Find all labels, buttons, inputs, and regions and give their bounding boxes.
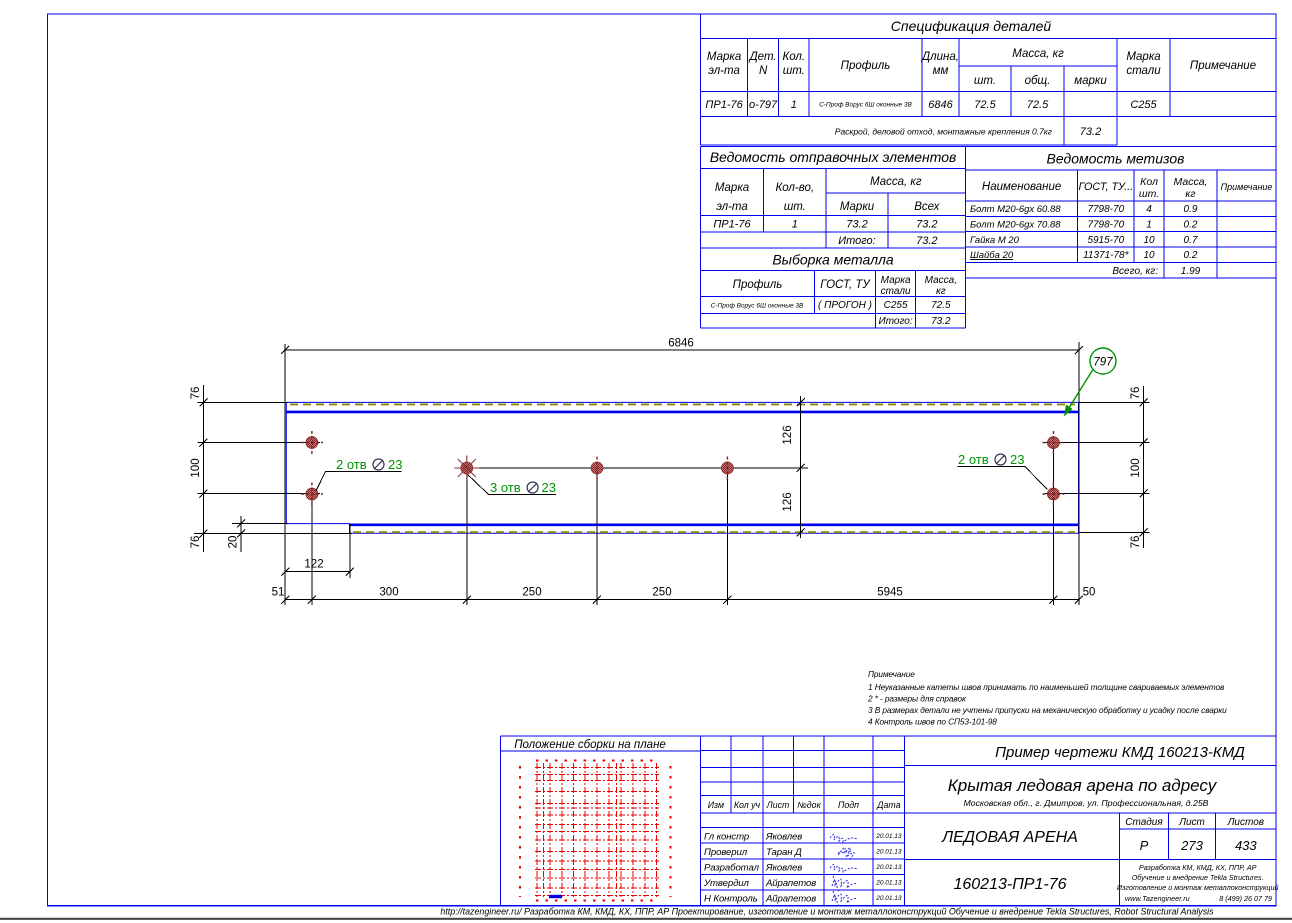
svg-text:8 (499) 26 07 79: 8 (499) 26 07 79	[1219, 894, 1272, 903]
svg-text:Таран Д: Таран Д	[766, 847, 802, 858]
svg-text:73.2: 73.2	[1080, 126, 1101, 138]
svg-text:73.2: 73.2	[916, 235, 937, 247]
svg-text:73.2: 73.2	[846, 219, 867, 231]
leader label left 2 отв	[316, 457, 403, 491]
dim text 76 right bottom	[1130, 536, 1142, 549]
title block texts	[514, 739, 1278, 905]
svg-text:Разработка КМ, КМД, КХ, ППР, А: Разработка КМ, КМД, КХ, ППР, АР	[1139, 863, 1257, 872]
svg-text:Марка: Марка	[715, 182, 749, 194]
svg-text:С-Проф Ворус 6Ш оконные 3В: С-Проф Ворус 6Ш оконные 3В	[819, 102, 912, 109]
svg-text:7798-70: 7798-70	[1087, 204, 1124, 215]
svg-text:ГОСТ, ТУ...: ГОСТ, ТУ...	[1078, 181, 1133, 193]
svg-text:2 * - размеры для справок: 2 * - размеры для справок	[867, 694, 967, 704]
svg-text:Раскрой, деловой отход, монтаж: Раскрой, деловой отход, монтажные крепле…	[835, 127, 1052, 137]
svg-text:Н Контроль: Н Контроль	[704, 894, 758, 905]
balloon 797	[1064, 348, 1116, 417]
svg-text:20.01.13: 20.01.13	[875, 895, 902, 902]
svg-text:Итого:: Итого:	[838, 235, 876, 247]
svg-text:Всех: Всех	[914, 201, 940, 213]
svg-text:Масса,: Масса,	[1174, 176, 1208, 188]
svg-text:Профиль: Профиль	[733, 279, 783, 291]
svg-text:Изготовление и монтаж металлок: Изготовление и монтаж металлоконструкций	[1117, 883, 1279, 892]
svg-text:76: 76	[190, 536, 202, 549]
svg-text:Положение сборки на плане: Положение сборки на плане	[514, 739, 666, 751]
svg-text:Подп: Подп	[838, 800, 859, 810]
extension line hole column 51	[311, 497, 313, 605]
svg-text:Наименование: Наименование	[982, 181, 1061, 193]
svg-text:стали: стали	[1126, 65, 1161, 77]
leader label 3 отв	[468, 475, 556, 496]
svg-text:Ведомость отправочных элементо: Ведомость отправочных элементов	[710, 149, 957, 165]
svg-text:кг: кг	[936, 286, 946, 297]
svg-text:N: N	[759, 65, 768, 77]
svg-text:4 Контроль швов по СП53-101-9: 4 Контроль швов по СП53-101-98	[868, 717, 997, 727]
svg-text:0.7: 0.7	[1184, 235, 1198, 246]
bend line top (dashed)	[290, 403, 1075, 405]
svg-text:76: 76	[1130, 387, 1142, 400]
svg-text:http://tazengineer.ru/ Разраб: http://tazengineer.ru/ Разработка КМ, КМ…	[440, 907, 1214, 917]
right vertical dimension line 76/100/76	[1045, 386, 1150, 548]
svg-text:Выборка металла: Выборка металла	[772, 252, 894, 268]
svg-text:Дет.: Дет.	[748, 51, 777, 63]
hole H2 lower-left	[301, 483, 323, 506]
svg-text:76: 76	[190, 387, 202, 400]
extension line hole column 601	[596, 468, 598, 605]
svg-text:С255: С255	[1130, 99, 1157, 111]
svg-text:Кол-во,: Кол-во,	[776, 182, 815, 194]
svg-text:100: 100	[1130, 458, 1142, 477]
svg-text:шт.: шт.	[1139, 188, 1159, 200]
svg-text:шт.: шт.	[974, 75, 996, 87]
purlin web bottom thin edge	[350, 532, 1079, 534]
svg-text:Кол.: Кол.	[782, 51, 805, 63]
table Спецификация деталей grid	[701, 14, 1277, 145]
bottom url line	[440, 907, 1214, 917]
svg-text:Обучение и внедрение Tekla St: Обучение и внедрение Tekla Structures.	[1132, 873, 1264, 882]
svg-text:Кол: Кол	[1140, 176, 1158, 188]
svg-text:Марки: Марки	[840, 201, 875, 213]
dim text 100 right	[1130, 458, 1142, 477]
svg-text:0.2: 0.2	[1184, 220, 1198, 231]
dimension 20	[232, 516, 288, 552]
svg-text:Яковлев: Яковлев	[765, 832, 802, 843]
dim text 76 left bottom	[190, 536, 202, 549]
svg-text:23: 23	[542, 480, 556, 495]
dim text 250 a	[522, 587, 541, 599]
svg-text:мм: мм	[933, 65, 949, 77]
svg-text:1 Неуказанные катеты швов при: 1 Неуказанные катеты швов принимать по н…	[868, 682, 1225, 692]
dim text 76 left top	[190, 387, 202, 400]
svg-text:Примечание: Примечание	[868, 669, 915, 679]
svg-text:250: 250	[652, 587, 671, 599]
extension line hole column 351	[466, 468, 468, 605]
svg-text:шт.: шт.	[783, 65, 805, 77]
svg-text:Пример чертежи КМД 160213-КМ: Пример чертежи КМД 160213-КМД	[995, 744, 1245, 761]
dim text 20	[228, 536, 240, 549]
svg-text:Гл констр: Гл констр	[704, 832, 750, 843]
purlin left end edge	[285, 402, 287, 523]
svg-text:Примечание: Примечание	[1221, 182, 1273, 192]
svg-text:5915-70: 5915-70	[1087, 235, 1124, 246]
svg-text:1: 1	[1146, 220, 1152, 231]
svg-text:Крытая ледовая арена по адресу: Крытая ледовая арена по адресу	[948, 776, 1218, 795]
middle dimension line 126/126	[467, 396, 808, 538]
signature scribbles	[830, 834, 857, 907]
dim text 250 b	[652, 587, 671, 599]
extension line right end	[1078, 342, 1080, 605]
svg-text:ГОСТ, ТУ: ГОСТ, ТУ	[820, 279, 871, 291]
svg-text:2 отв: 2 отв	[336, 457, 367, 472]
svg-text:126: 126	[782, 492, 794, 511]
svg-text:Марка: Марка	[1126, 51, 1160, 63]
svg-text:Итого:: Итого:	[879, 316, 913, 327]
dimension 6846	[281, 346, 1083, 354]
svg-text:Масса,: Масса,	[925, 275, 957, 286]
dim text 126 bottom	[782, 492, 794, 511]
svg-text:122: 122	[304, 559, 323, 571]
svg-text:Болт М20-6gх 60.88: Болт М20-6gх 60.88	[970, 204, 1061, 215]
svg-text:Яковлев: Яковлев	[765, 863, 802, 874]
svg-text:433: 433	[1235, 838, 1257, 853]
hole H6 upper-right	[1042, 431, 1064, 454]
svg-text:кг: кг	[1185, 188, 1195, 200]
svg-text:10: 10	[1143, 235, 1155, 246]
bend line bottom (dashed)	[353, 531, 1075, 533]
svg-text:С-Проф Ворус 6Ш оконные 3В: С-Проф Ворус 6Ш оконные 3В	[711, 303, 804, 310]
svg-text:0.9: 0.9	[1184, 204, 1198, 215]
svg-text:0.2: 0.2	[1184, 250, 1198, 261]
svg-text:7798-70: 7798-70	[1087, 220, 1124, 231]
bottom separator line	[0, 918, 1292, 920]
svg-text:Айрапетов: Айрапетов	[765, 894, 816, 905]
svg-text:273: 273	[1180, 838, 1203, 853]
svg-text:10: 10	[1143, 250, 1155, 261]
table Выборка металла grid	[701, 271, 966, 328]
bottom dimension chain line	[281, 596, 1083, 604]
svg-text:11371-78*: 11371-78*	[1083, 250, 1130, 261]
svg-text:Изм: Изм	[708, 800, 724, 810]
svg-text:72.5: 72.5	[974, 99, 996, 111]
svg-text:73.2: 73.2	[916, 219, 937, 231]
hole H3 middle star	[454, 456, 479, 481]
dim text 300	[379, 587, 398, 599]
dimension 122	[281, 524, 354, 578]
svg-text:73.2: 73.2	[931, 316, 951, 327]
purlin web top thin edge	[286, 401, 1078, 403]
TABLES-LINES	[501, 14, 1276, 906]
dim text 6846	[668, 338, 694, 350]
title block: signature table grid	[701, 736, 905, 905]
svg-text:Шайба 20: Шайба 20	[970, 250, 1014, 261]
svg-text:эл-та: эл-та	[708, 65, 740, 77]
svg-text:Длина,: Длина,	[920, 51, 959, 63]
svg-text:1.99: 1.99	[1181, 266, 1201, 277]
purlin bottom-left notch outline	[286, 524, 349, 534]
svg-text:300: 300	[379, 587, 398, 599]
svg-text:23: 23	[388, 457, 402, 472]
svg-text:№док: №док	[797, 800, 821, 810]
svg-text:Гайка М 20: Гайка М 20	[970, 235, 1020, 246]
svg-text:С255: С255	[884, 300, 908, 311]
hole H5 middle	[721, 457, 733, 480]
svg-text:о-797: о-797	[749, 99, 778, 111]
svg-text:Р: Р	[1140, 838, 1149, 853]
hole H1 upper-left	[301, 431, 323, 454]
svg-text:6846: 6846	[928, 99, 953, 111]
svg-text:Кол уч: Кол уч	[734, 800, 761, 810]
svg-text:( ПРОГОН ): ( ПРОГОН )	[818, 300, 872, 311]
svg-text:100: 100	[190, 458, 202, 477]
svg-text:3 отв: 3 отв	[490, 480, 521, 495]
svg-text:20.01.13: 20.01.13	[875, 833, 902, 840]
hole H7 lower-right	[1042, 483, 1064, 506]
extension line hole column 851	[726, 468, 728, 605]
dim text 100 left	[190, 458, 202, 477]
svg-text:2 отв: 2 отв	[958, 452, 989, 467]
svg-text:Утвердил: Утвердил	[703, 878, 750, 889]
title block: right stamp grid	[905, 765, 1276, 905]
svg-text:эл-та: эл-та	[716, 201, 748, 213]
dim text 122	[304, 559, 323, 571]
svg-text:Ведомость метизов: Ведомость метизов	[1047, 151, 1185, 167]
svg-text:1: 1	[791, 99, 797, 111]
extension line left end	[284, 344, 286, 605]
hole H4 middle	[591, 457, 603, 480]
dim text 126 top	[782, 425, 794, 444]
svg-text:Лист: Лист	[766, 800, 790, 810]
svg-text:шт.: шт.	[784, 201, 806, 213]
svg-text:Спецификация деталей: Спецификация деталей	[891, 18, 1052, 34]
svg-text:72.5: 72.5	[931, 300, 951, 311]
svg-text:www.Tazengineer.ru: www.Tazengineer.ru	[1125, 894, 1190, 903]
svg-text:6846: 6846	[668, 338, 694, 350]
leader label right 2 отв	[958, 452, 1048, 490]
table Ведомость метизов grid	[966, 170, 1277, 278]
svg-text:20.01.13: 20.01.13	[875, 880, 902, 887]
purlin bottom flange thick line	[350, 523, 1079, 526]
purlin top flange thick line	[286, 411, 1078, 414]
metal take-off table texts	[711, 252, 957, 328]
plan position red grid	[520, 761, 671, 901]
plan position assembly mark	[549, 895, 562, 898]
svg-text:160213-ПР1-76: 160213-ПР1-76	[953, 876, 1066, 893]
svg-text:Разработал: Разработал	[704, 863, 760, 874]
svg-text:Стадия: Стадия	[1125, 817, 1163, 828]
svg-text:50: 50	[1083, 587, 1096, 599]
svg-text:72.5: 72.5	[1027, 99, 1049, 111]
svg-text:Проверил: Проверил	[704, 847, 748, 858]
svg-text:марки: марки	[1074, 75, 1107, 87]
svg-text:20.01.13: 20.01.13	[875, 849, 902, 856]
extension line right hole column	[1052, 444, 1054, 605]
dim text 51	[272, 587, 285, 599]
svg-text:Всего, кг:: Всего, кг:	[1112, 266, 1158, 277]
svg-text:4: 4	[1146, 204, 1152, 215]
table Ведомость отправочных элементов grid	[701, 147, 1277, 328]
notes	[867, 669, 1227, 727]
svg-text:23: 23	[1010, 452, 1024, 467]
svg-text:Айрапетов: Айрапетов	[765, 878, 816, 889]
svg-text:Профиль: Профиль	[841, 60, 891, 72]
dim text 5945	[877, 587, 903, 599]
svg-text:Масса, кг: Масса, кг	[870, 176, 922, 188]
svg-text:3 В размерах детали не учтены: 3 В размерах детали не учтены припуски н…	[868, 705, 1227, 715]
dim text 76 right top	[1130, 387, 1142, 400]
svg-text:ПР1-76: ПР1-76	[713, 219, 751, 231]
purlin right end edge	[1078, 402, 1080, 533]
fasteners table texts	[970, 151, 1272, 278]
svg-text:Примечание: Примечание	[1190, 60, 1256, 72]
shipping elements table texts	[710, 149, 957, 247]
svg-text:20: 20	[228, 536, 240, 549]
svg-text:5945: 5945	[877, 587, 903, 599]
svg-text:250: 250	[522, 587, 541, 599]
svg-text:Масса, кг: Масса, кг	[1012, 48, 1064, 60]
title block: Положение сборки box	[501, 736, 1276, 905]
svg-text:общ.: общ.	[1025, 75, 1051, 87]
dim text 50	[1083, 587, 1096, 599]
svg-text:Болт М20-6gх 70.88: Болт М20-6gх 70.88	[970, 220, 1061, 231]
svg-text:51: 51	[272, 587, 285, 599]
left vertical dimension line 76/100/76	[194, 385, 352, 552]
svg-text:стали: стали	[881, 286, 911, 297]
spec table texts	[705, 18, 1256, 138]
svg-text:1: 1	[792, 219, 798, 231]
svg-text:Дата: Дата	[876, 800, 900, 810]
svg-text:Лист: Лист	[1178, 817, 1205, 828]
svg-text:76: 76	[1130, 536, 1142, 549]
svg-text:20.01.13: 20.01.13	[875, 864, 902, 871]
svg-text:126: 126	[782, 425, 794, 444]
svg-text:ПР1-76: ПР1-76	[705, 99, 743, 111]
svg-text:797: 797	[1093, 357, 1113, 369]
svg-text:Московская обл., г. Дмитров, у: Московская обл., г. Дмитров, ул. Професс…	[964, 798, 1209, 808]
svg-text:ЛЕДОВАЯ АРЕНА: ЛЕДОВАЯ АРЕНА	[941, 829, 1078, 846]
svg-text:Марка: Марка	[881, 275, 911, 286]
svg-text:Марка: Марка	[707, 51, 741, 63]
svg-text:Листов: Листов	[1227, 817, 1264, 828]
